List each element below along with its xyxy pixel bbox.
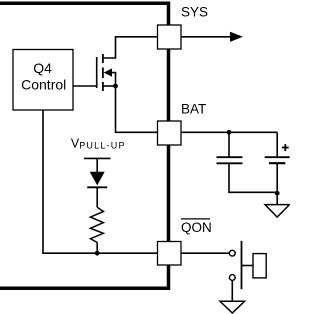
svg-text:Control: Control: [21, 77, 66, 93]
wire gate lead: [73, 85, 96, 87]
pin SYS: [158, 25, 182, 49]
wire dot to capacitor: [228, 132, 230, 156]
pin BAT: [158, 121, 182, 145]
IC boundary right edge segment SYS-BAT: [167, 49, 171, 121]
label QON (active low): [181, 219, 212, 235]
capacitor C1: [217, 157, 243, 163]
wire switch to ground: [231, 280, 233, 301]
wire diode to resistor: [96, 187, 98, 207]
wire rail to diode: [96, 158, 98, 172]
ground battery side: [265, 205, 290, 217]
wire drain to SYS pin: [104, 37, 158, 58]
wire BAT to battery network: [181, 131, 277, 133]
IC boundary top edge: [0, 3, 169, 25]
wire QON pin to switch: [181, 252, 229, 254]
pin QON: [158, 242, 182, 266]
junction dot source/body: [113, 84, 118, 89]
battery BT1: [265, 132, 290, 204]
IC boundary right edge segment BAT-QON: [167, 145, 171, 242]
wire resistor to QON net: [96, 243, 98, 254]
transistor Q4 (BATFET): [97, 54, 116, 91]
node VPULL-UP rail: [84, 157, 111, 159]
battery positive label: [282, 144, 289, 151]
wire source to BAT pin: [116, 86, 158, 132]
Q4 Control block: [13, 50, 73, 111]
IC boundary bottom edge: [0, 265, 169, 288]
wire capacitor bottom: [229, 163, 277, 192]
arrow SYS output: [231, 33, 242, 42]
switch S1 pushbutton: [229, 241, 266, 289]
junction dot QON net: [95, 251, 100, 256]
svg-text:SYS: SYS: [181, 4, 208, 19]
svg-text:QON: QON: [181, 220, 212, 235]
junction dot battery ground: [275, 191, 280, 196]
svg-text:Q4: Q4: [33, 60, 52, 76]
wire Q4 control to QON net: [43, 110, 158, 253]
junction dot BAT node: [227, 130, 232, 135]
wire SYS pin to arrow: [181, 36, 232, 38]
resistor R1: [90, 207, 103, 242]
diode D1: [87, 172, 107, 188]
svg-text:BAT: BAT: [181, 102, 206, 117]
ground switch side: [220, 301, 245, 313]
